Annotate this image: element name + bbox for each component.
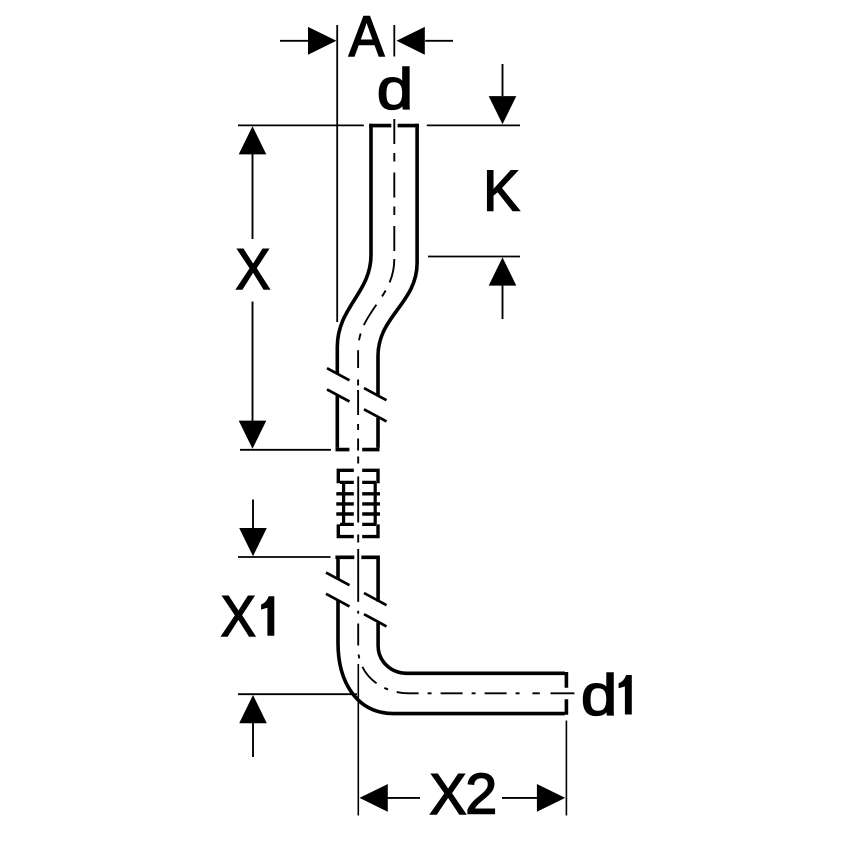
pipe centerline dot below break 1 [357, 424, 359, 430]
pipe centerline dash at break 1 [357, 390, 359, 415]
dimension A right arrowhead [397, 27, 425, 55]
break 2 slash D [326, 594, 387, 627]
break 1 slash B [327, 389, 387, 421]
pipe centerline upper straight (dash-dot) [393, 119, 395, 259]
label X1: X [221, 584, 256, 649]
flush pipe: upper right edge with S-bend [378, 124, 417, 397]
label d1: d [581, 663, 617, 727]
flush pipe: lower end caps above coupling [336, 448, 380, 452]
dimension X1 up arrow shaft [252, 723, 254, 757]
coupling rib 3 [336, 512, 380, 515]
pipe centerline through coupling [357, 457, 359, 543]
horizontal pipe right end caps [565, 672, 569, 715]
label K [483, 158, 520, 222]
pipe centerline dot above break 1 [357, 380, 359, 386]
pipe centerline final dash past pipe end [551, 692, 575, 694]
coupling body top edge [340, 481, 376, 484]
dimension X top extension line [238, 124, 364, 126]
label d1: digit 1 [619, 675, 632, 715]
coupling body bottom edge [340, 523, 376, 526]
dimension K top extension line [427, 124, 520, 126]
coupling body walls [344, 482, 376, 524]
coupling top flange [337, 469, 380, 484]
dimension A left arrowhead [308, 27, 336, 55]
dimension A right arrow shaft [425, 40, 453, 42]
dimension A left arrow shaft [280, 40, 308, 42]
lower pipe right edge and inner elbow [378, 623, 565, 674]
dimension X lower shaft [252, 302, 254, 422]
svg-text:X: X [235, 237, 270, 302]
break 2 slash C [326, 573, 387, 606]
dimension A right extension line [393, 25, 395, 57]
dimension K down arrow shaft [502, 64, 504, 96]
flush pipe: top end edge [369, 124, 419, 128]
pipe centerline lower long dash [357, 549, 359, 602]
dimension X2 right shaft [502, 797, 537, 799]
dimension X1 top extension line [238, 556, 331, 558]
dimension K down arrowhead [489, 96, 517, 124]
label A [349, 4, 385, 68]
lower pipe right edge above break 2 [376, 556, 380, 602]
label X2: X [429, 763, 466, 827]
dimension X2 left shaft [388, 797, 421, 799]
flush pipe: left edge below break 1 [335, 395, 339, 448]
pipe centerline elbow arc and horizontal [358, 624, 527, 694]
label d [377, 57, 413, 121]
flush pipe: upper left edge with S-bend [337, 124, 371, 374]
dimension K up arrow shaft [502, 285, 504, 319]
label X [235, 237, 270, 302]
svg-text:2: 2 [465, 763, 497, 827]
svg-text:d: d [581, 663, 617, 727]
pipe centerline lower dot [357, 611, 359, 614]
coupling bottom flange [337, 524, 380, 538]
dimension K bottom extension line [428, 256, 520, 258]
dimension X2 left arrowhead [360, 784, 388, 812]
dimension X down arrowhead [239, 421, 267, 449]
svg-text:K: K [483, 158, 520, 222]
dimension X2 right extension line [565, 721, 567, 816]
svg-text:X: X [429, 763, 466, 827]
svg-text:d: d [377, 57, 413, 121]
svg-text:X: X [221, 584, 256, 649]
dimension X2 right arrowhead [537, 784, 565, 812]
coupling rib 2 [336, 502, 380, 505]
lower pipe left edge above break 2 [336, 556, 340, 580]
dimension X bottom extension line [240, 449, 331, 451]
dimension X up arrowhead [239, 126, 267, 154]
dimension X1 bottom extension line [238, 693, 357, 695]
dimension X2 left extension line [357, 664, 359, 816]
pipe centerline dot before end [532, 692, 539, 694]
pipe centerline dash above pipe end [357, 439, 359, 451]
break 1 slash A [327, 368, 387, 400]
dimension X1 down arrowhead [239, 528, 267, 556]
dimension K up arrowhead [489, 257, 517, 285]
dimension A left extension line [336, 25, 338, 322]
dimension X1 up arrowhead [239, 695, 267, 723]
lower pipe left edge and outer elbow [338, 601, 565, 714]
lower pipe top end caps [335, 555, 379, 559]
dimension X1 down arrow shaft [252, 500, 254, 529]
dimension X upper shaft [252, 154, 254, 239]
label X1: digit 1 [261, 596, 274, 636]
flush pipe: right edge below break 1 [376, 418, 380, 448]
pipe centerline S-bend (dash-dot) [358, 259, 394, 368]
coupling rib 1 [336, 492, 380, 495]
